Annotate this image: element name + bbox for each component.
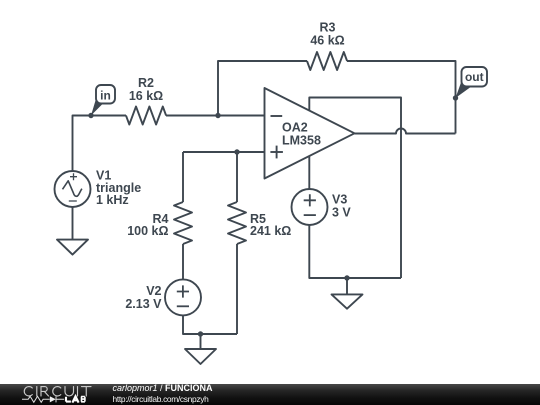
svg-text:3 V: 3 V	[332, 206, 351, 220]
ground below V1	[57, 207, 88, 255]
wire op-amp bottom pin to V3 top	[308, 156, 310, 189]
wire feedback tap up and to R3 left	[218, 61, 307, 116]
svg-text:R3: R3	[320, 21, 336, 35]
svg-text:LM358: LM358	[282, 134, 321, 148]
wire R3 right to out node down to output level	[347, 61, 456, 134]
wire R4 top	[182, 152, 184, 202]
node dot out	[453, 95, 458, 100]
source V1	[55, 171, 91, 207]
footer bar	[0, 384, 540, 405]
footer url text	[113, 395, 209, 404]
resistor R3	[307, 52, 347, 70]
svg-text:241 kΩ: 241 kΩ	[250, 224, 291, 238]
svg-text:out: out	[465, 70, 484, 84]
wire R5 bottom to rail	[236, 244, 238, 334]
resistor R2	[126, 107, 166, 125]
svg-text:V2: V2	[146, 284, 161, 298]
node dot in	[88, 113, 93, 118]
CircuitLab logo	[14, 384, 124, 405]
wire R4 bottom to V2 top	[182, 244, 184, 280]
source V2	[165, 279, 201, 315]
op-amp OA2 body	[265, 88, 355, 179]
wire R5 top	[236, 152, 238, 202]
wire op-amp output with hop over supply wire	[355, 129, 456, 134]
node dot R5 tap	[234, 149, 239, 154]
wire noninverting input rail	[183, 151, 265, 153]
node dot V2 ground	[198, 331, 203, 336]
ground right of V3	[332, 278, 363, 309]
flag in	[91, 85, 115, 116]
wire R2 right to op-amp inverting input	[166, 115, 265, 117]
source V3	[292, 189, 328, 225]
node dot feedback tap	[215, 113, 220, 118]
ground below V2	[185, 334, 216, 364]
wire V3 bottom to ground rail	[309, 225, 401, 278]
flag out	[456, 67, 488, 98]
svg-text:100 kΩ: 100 kΩ	[127, 224, 168, 238]
svg-text:2.13 V: 2.13 V	[125, 297, 162, 311]
svg-text:in: in	[100, 89, 111, 103]
svg-text:V3: V3	[332, 193, 347, 207]
svg-text:46 kΩ: 46 kΩ	[310, 34, 344, 48]
svg-text:16 kΩ: 16 kΩ	[129, 89, 163, 103]
node dot V3 ground	[344, 275, 349, 280]
resistor R5	[228, 202, 246, 244]
wire V2 bottom to bottom rail	[183, 315, 237, 334]
wire op-amp top pin to right vertical rail	[309, 98, 401, 279]
svg-text:1 kHz: 1 kHz	[96, 193, 129, 207]
wire V1 top to R2 left	[73, 116, 127, 172]
footer title text	[113, 384, 213, 393]
resistor R4	[174, 202, 192, 244]
svg-text:OA2: OA2	[282, 121, 308, 135]
